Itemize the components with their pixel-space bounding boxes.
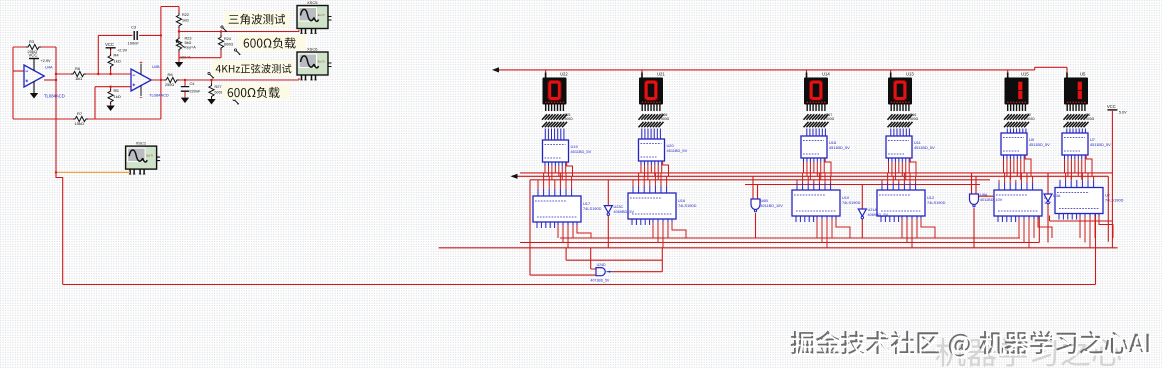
wires: counter U1 bottom pins bbox=[998, 216, 1052, 248]
svg-text:C4: C4 bbox=[190, 82, 195, 86]
decoder IC U7 4511BD_5V bbox=[1062, 133, 1111, 155]
wire: R7 feedback row bbox=[13, 118, 161, 120]
counter IC U16 74LS190D bbox=[628, 193, 697, 219]
svg-text:74LS190D: 74LS190D bbox=[927, 200, 946, 205]
wire: top bus stub to display U14 bbox=[806, 70, 808, 78]
measurement probe on sine output bbox=[208, 72, 214, 78]
wires: decoder U11 to bus zone bbox=[889, 158, 917, 180]
wire: lower bus 2 bbox=[439, 247, 1118, 249]
op-amp U4A bbox=[24, 59, 65, 99]
svg-text:4511BD_5V: 4511BD_5V bbox=[1029, 142, 1050, 147]
label: 4KHz sine wave test (CJK) bbox=[212, 61, 294, 76]
inverter U23C 4069BD_5V bbox=[604, 180, 634, 248]
resistor R4 bbox=[108, 48, 121, 74]
counter IC U1 10V bbox=[994, 190, 1051, 216]
ground below R27 bbox=[207, 99, 215, 105]
svg-text:R6: R6 bbox=[75, 66, 81, 71]
label: 600 ohm load (CJK, bottom) bbox=[222, 84, 290, 100]
svg-text:U21A: U21A bbox=[868, 208, 878, 212]
wire: U4A output junction vertical bbox=[55, 47, 57, 172]
wires: bus zone to counter U12 bbox=[882, 173, 916, 190]
resistor network R16 500ohm bbox=[888, 113, 919, 127]
svg-text:1kΩ: 1kΩ bbox=[114, 59, 121, 64]
svg-text:4069BD_5V: 4069BD_5V bbox=[614, 210, 635, 214]
wire: U4A feedback loop left vertical and R3 row bbox=[13, 47, 56, 119]
svg-text:U15: U15 bbox=[1021, 71, 1029, 76]
svg-text:XSC1: XSC1 bbox=[136, 141, 147, 146]
svg-text:220nF: 220nF bbox=[190, 90, 201, 94]
wires: bus zone to counter U2 bbox=[1060, 173, 1094, 188]
label: 600 ohm load (CJK, top) bbox=[238, 35, 306, 51]
svg-text:4511BD_5V: 4511BD_5V bbox=[1090, 142, 1111, 147]
wires: counter U12 bottom pins bbox=[881, 216, 935, 248]
watermark faint text bbox=[936, 337, 1121, 366]
svg-text:R27: R27 bbox=[215, 85, 222, 89]
decoder IC U20 4511BD_5V bbox=[639, 139, 688, 161]
wires: network to decoder U20 bbox=[642, 129, 661, 140]
wires: network to decoder U19 bbox=[545, 129, 564, 141]
OR gate U24D 4071BD_5V bbox=[591, 263, 613, 282]
svg-text:VCC: VCC bbox=[105, 42, 114, 47]
svg-text:XSC6: XSC6 bbox=[307, 47, 318, 52]
wire: U4A output to R6 row bbox=[44, 79, 56, 81]
svg-text:4011BD_10V: 4011BD_10V bbox=[980, 198, 1003, 202]
resistor R27 600ohm load bbox=[209, 80, 224, 99]
svg-text:VCC: VCC bbox=[1107, 104, 1116, 109]
display U13 pin wires bbox=[891, 105, 909, 112]
svg-text:U8A: U8A bbox=[980, 193, 988, 197]
svg-text:XSC5: XSC5 bbox=[307, 0, 318, 5]
resistor R3 bbox=[26, 39, 41, 54]
svg-text:U3A: U3A bbox=[1053, 194, 1061, 198]
resistor R5 bbox=[108, 87, 121, 106]
counter IC U17 74LS190D bbox=[533, 196, 602, 222]
wire: R24 bottom row to pot bbox=[179, 49, 221, 58]
counter IC U10 74LS190D bbox=[792, 190, 861, 216]
wires: decoder U18 to bus zone bbox=[804, 158, 832, 180]
wires: bus zone to counter U1 bbox=[999, 173, 1033, 190]
wires: bus zone to counter U16 bbox=[633, 173, 667, 193]
svg-text:600Ω: 600Ω bbox=[224, 43, 233, 47]
wires: bus zone to counter U10 bbox=[797, 173, 831, 190]
resistor network R2 500ohm bbox=[1004, 113, 1035, 127]
wire: U24D output riser bbox=[566, 248, 662, 272]
wires: counter U2 bottom pins bbox=[1059, 214, 1113, 248]
wire: top bus stub to display U15 bbox=[1007, 70, 1009, 78]
inverter U3A 4069BD_5V bbox=[1044, 173, 1061, 243]
wire: lower bus 3 bbox=[520, 216, 1039, 243]
svg-text:Ext Tr: Ext Tr bbox=[318, 13, 325, 17]
NAND gate U6B 4011BD_10V bbox=[751, 176, 783, 238]
NAND gate U8A 4011BD_10V bbox=[970, 173, 1003, 248]
inverter U21A 4069BD_5V bbox=[858, 185, 888, 239]
wire: left section down to bottom bus bbox=[56, 172, 63, 284]
wires: network to decoder U11 bbox=[891, 129, 910, 137]
svg-text:74LS190D: 74LS190D bbox=[842, 200, 861, 205]
svg-text:R5: R5 bbox=[114, 88, 120, 93]
svg-text:U21: U21 bbox=[657, 71, 665, 76]
7-seg display U5 bbox=[1064, 71, 1088, 104]
svg-text:R4: R4 bbox=[114, 53, 120, 58]
7-seg display U21 bbox=[639, 71, 665, 104]
svg-text:100nF: 100nF bbox=[128, 41, 140, 46]
svg-text:4071BD_5V: 4071BD_5V bbox=[591, 278, 611, 282]
oscilloscope XSC6 bbox=[297, 47, 332, 81]
op-amp U4B bbox=[131, 61, 169, 97]
resistor network R21 500ohm bbox=[542, 113, 573, 127]
decoder IC U19 4511BD_5V bbox=[543, 140, 592, 162]
decoder IC U11 4511BD_5V bbox=[886, 136, 935, 158]
svg-text:1kΩ: 1kΩ bbox=[182, 19, 189, 23]
resistor R6 bbox=[71, 66, 86, 81]
display U15 pin wires bbox=[1008, 105, 1026, 112]
wires: counter U10 bottom pins bbox=[796, 216, 850, 248]
svg-text:4069BD_5V: 4069BD_5V bbox=[868, 213, 889, 217]
wires: decoder U7 to bus zone bbox=[1065, 155, 1093, 180]
svg-text:C3: C3 bbox=[131, 25, 137, 30]
svg-text:TL084ACD: TL084ACD bbox=[149, 93, 169, 98]
wire: R6 row to U4B non-inverting input bbox=[56, 73, 131, 75]
ground below R5 bbox=[106, 106, 114, 112]
ground below R23 bbox=[175, 62, 183, 68]
wire: second bus with left arrow bbox=[514, 175, 1108, 177]
resistor R24 600ohm load bbox=[218, 32, 233, 50]
wire: column1 left riser to gate U24D bbox=[530, 180, 596, 275]
svg-text:250Ω: 250Ω bbox=[165, 83, 174, 87]
watermark main text (embossed) bbox=[791, 331, 1151, 359]
wire: C3 left riser bbox=[97, 35, 99, 74]
wire: bus line C bbox=[530, 179, 990, 181]
svg-text:Ext Tr: Ext Tr bbox=[146, 154, 153, 158]
svg-text:U14: U14 bbox=[822, 71, 830, 76]
svg-text:R22: R22 bbox=[182, 13, 189, 17]
resistor R22 bbox=[176, 12, 189, 32]
wire: triangle-wave test row bbox=[179, 30, 299, 32]
display U22 pin wires bbox=[546, 105, 564, 112]
resistor network R17 500ohm bbox=[804, 113, 835, 127]
resistor network R1 500ohm bbox=[1064, 113, 1095, 127]
svg-text:+2.9V: +2.9V bbox=[117, 48, 127, 52]
svg-text:74LS190D: 74LS190D bbox=[678, 203, 697, 208]
wires: counter U16 bottom pins bbox=[632, 219, 686, 248]
wire: lower bus 1 bbox=[560, 237, 1020, 239]
svg-text:500Ω: 500Ω bbox=[565, 117, 574, 121]
svg-text:R24: R24 bbox=[224, 37, 231, 41]
svg-text:U13: U13 bbox=[906, 71, 914, 76]
svg-text:U5: U5 bbox=[1080, 71, 1086, 76]
oscilloscope XSC5 bbox=[297, 0, 332, 34]
7-seg display U22 bbox=[543, 71, 569, 104]
oscilloscope XSC1 bbox=[126, 141, 161, 175]
capacitor C4 220nF bbox=[181, 80, 201, 98]
wires: network to decoder U18 bbox=[807, 129, 826, 137]
svg-text:R23: R23 bbox=[185, 37, 192, 41]
measurement probe lower bbox=[233, 98, 239, 104]
display U5 pin wires bbox=[1067, 105, 1085, 112]
svg-text:74LS190D: 74LS190D bbox=[583, 206, 602, 211]
wire: right riser A bbox=[1050, 176, 1113, 242]
potentiometer R23 5k Key=A bbox=[176, 32, 196, 63]
wire: top bus stub to display U22 bbox=[545, 70, 547, 78]
wires: counter U17 bottom pins bbox=[537, 222, 591, 248]
wire: U4B output row through R8 to XSC6 bbox=[151, 78, 299, 80]
svg-text:5kΩ: 5kΩ bbox=[185, 41, 192, 45]
wires: decoder U19 to bus zone bbox=[545, 162, 573, 180]
svg-text:1kΩ: 1kΩ bbox=[114, 94, 121, 99]
label: triangle wave test (CJK) bbox=[224, 12, 290, 28]
measurement probe mid bbox=[234, 49, 240, 55]
measurement probe on triangle output bbox=[221, 26, 227, 32]
ground below U4A bbox=[30, 93, 38, 99]
svg-text:R3: R3 bbox=[29, 39, 35, 44]
7-seg display U13 bbox=[888, 71, 914, 104]
wires: network to decoder U9 bbox=[1007, 129, 1026, 134]
7-seg display U15 bbox=[1005, 71, 1030, 104]
svg-text:500Ω: 500Ω bbox=[1027, 117, 1036, 121]
counter IC U12 74LS190D bbox=[877, 190, 946, 216]
wire: C3 row bbox=[98, 34, 161, 36]
svg-text:VCC: VCC bbox=[29, 53, 38, 58]
wire: short bus line D bbox=[745, 184, 980, 186]
svg-text:15kΩ: 15kΩ bbox=[75, 121, 84, 126]
svg-text:U4A: U4A bbox=[45, 65, 53, 70]
display U21 pin wires bbox=[642, 105, 660, 112]
svg-text:U24D: U24D bbox=[597, 263, 606, 267]
svg-text:Ext Tr: Ext Tr bbox=[318, 60, 325, 64]
svg-text:500Ω: 500Ω bbox=[910, 117, 919, 121]
counter IC U2 74LS190D bbox=[1055, 188, 1124, 214]
7-seg display U14 bbox=[804, 71, 830, 104]
wire: top horizontal bus with left arrow bbox=[496, 67, 1067, 70]
ground below C4 bbox=[181, 98, 189, 104]
wires: decoder U20 to bus zone bbox=[641, 161, 669, 180]
wire: bus line A bbox=[520, 172, 1112, 174]
wire: bottom long bus bbox=[63, 211, 1096, 285]
svg-text:R7: R7 bbox=[77, 111, 83, 116]
capacitor C3 100nF bbox=[128, 25, 140, 46]
svg-text:4011BD_10V: 4011BD_10V bbox=[761, 204, 784, 208]
wires: bus zone to counter U17 bbox=[538, 173, 572, 196]
svg-text:U22: U22 bbox=[560, 71, 568, 76]
wire: U4B inverting input row bbox=[95, 87, 131, 119]
svg-text:1kΩ: 1kΩ bbox=[75, 76, 82, 81]
svg-text:500Ω: 500Ω bbox=[826, 117, 835, 121]
svg-text:5.0V: 5.0V bbox=[1119, 110, 1127, 114]
svg-text:4511BD_5V: 4511BD_5V bbox=[829, 145, 850, 150]
wires: network to decoder U7 bbox=[1067, 129, 1086, 134]
resistor R8 bbox=[164, 72, 179, 87]
decoder IC U9 4511BD_5V bbox=[1001, 133, 1050, 155]
svg-text:U6B: U6B bbox=[761, 199, 769, 203]
decoder IC U18 4511BD_5V bbox=[801, 136, 850, 158]
svg-text:TL084ACD: TL084ACD bbox=[44, 94, 65, 99]
svg-text:4511BD_5V: 4511BD_5V bbox=[571, 149, 592, 154]
svg-text:R8: R8 bbox=[168, 72, 174, 77]
wire: orange probe wire to XSC1 bbox=[57, 171, 130, 173]
svg-text:4511BD_5V: 4511BD_5V bbox=[667, 148, 688, 153]
VCC supply symbol above U4A, +2.9V bbox=[29, 53, 51, 63]
svg-text:500Ω: 500Ω bbox=[661, 117, 670, 121]
svg-text:U23C: U23C bbox=[614, 205, 624, 209]
resistor R7 bbox=[73, 111, 88, 126]
wires: decoder U9 to bus zone bbox=[1004, 155, 1032, 180]
svg-text:4511BD_5V: 4511BD_5V bbox=[914, 145, 935, 150]
wire: right riser x161 (C3/R22/R7 net) bbox=[161, 7, 179, 120]
svg-text:Key=A: Key=A bbox=[185, 46, 197, 50]
svg-text:500Ω: 500Ω bbox=[1086, 117, 1095, 121]
wire: top bus stub to display U21 bbox=[641, 70, 643, 78]
resistor network R26 500ohm bbox=[639, 113, 670, 127]
wire: top bus stub to display U5 bbox=[1066, 67, 1068, 77]
display U14 pin wires bbox=[807, 105, 825, 112]
svg-text:U4B: U4B bbox=[152, 64, 160, 69]
VCC supply symbol above R4, +2.9V bbox=[105, 42, 127, 52]
VCC supply 5.0V right bbox=[1107, 104, 1127, 248]
wire: node to U4A inverting input bbox=[13, 70, 24, 72]
wire: top bus stub to display U13 bbox=[890, 70, 892, 78]
svg-text:+2.9V: +2.9V bbox=[41, 59, 51, 63]
